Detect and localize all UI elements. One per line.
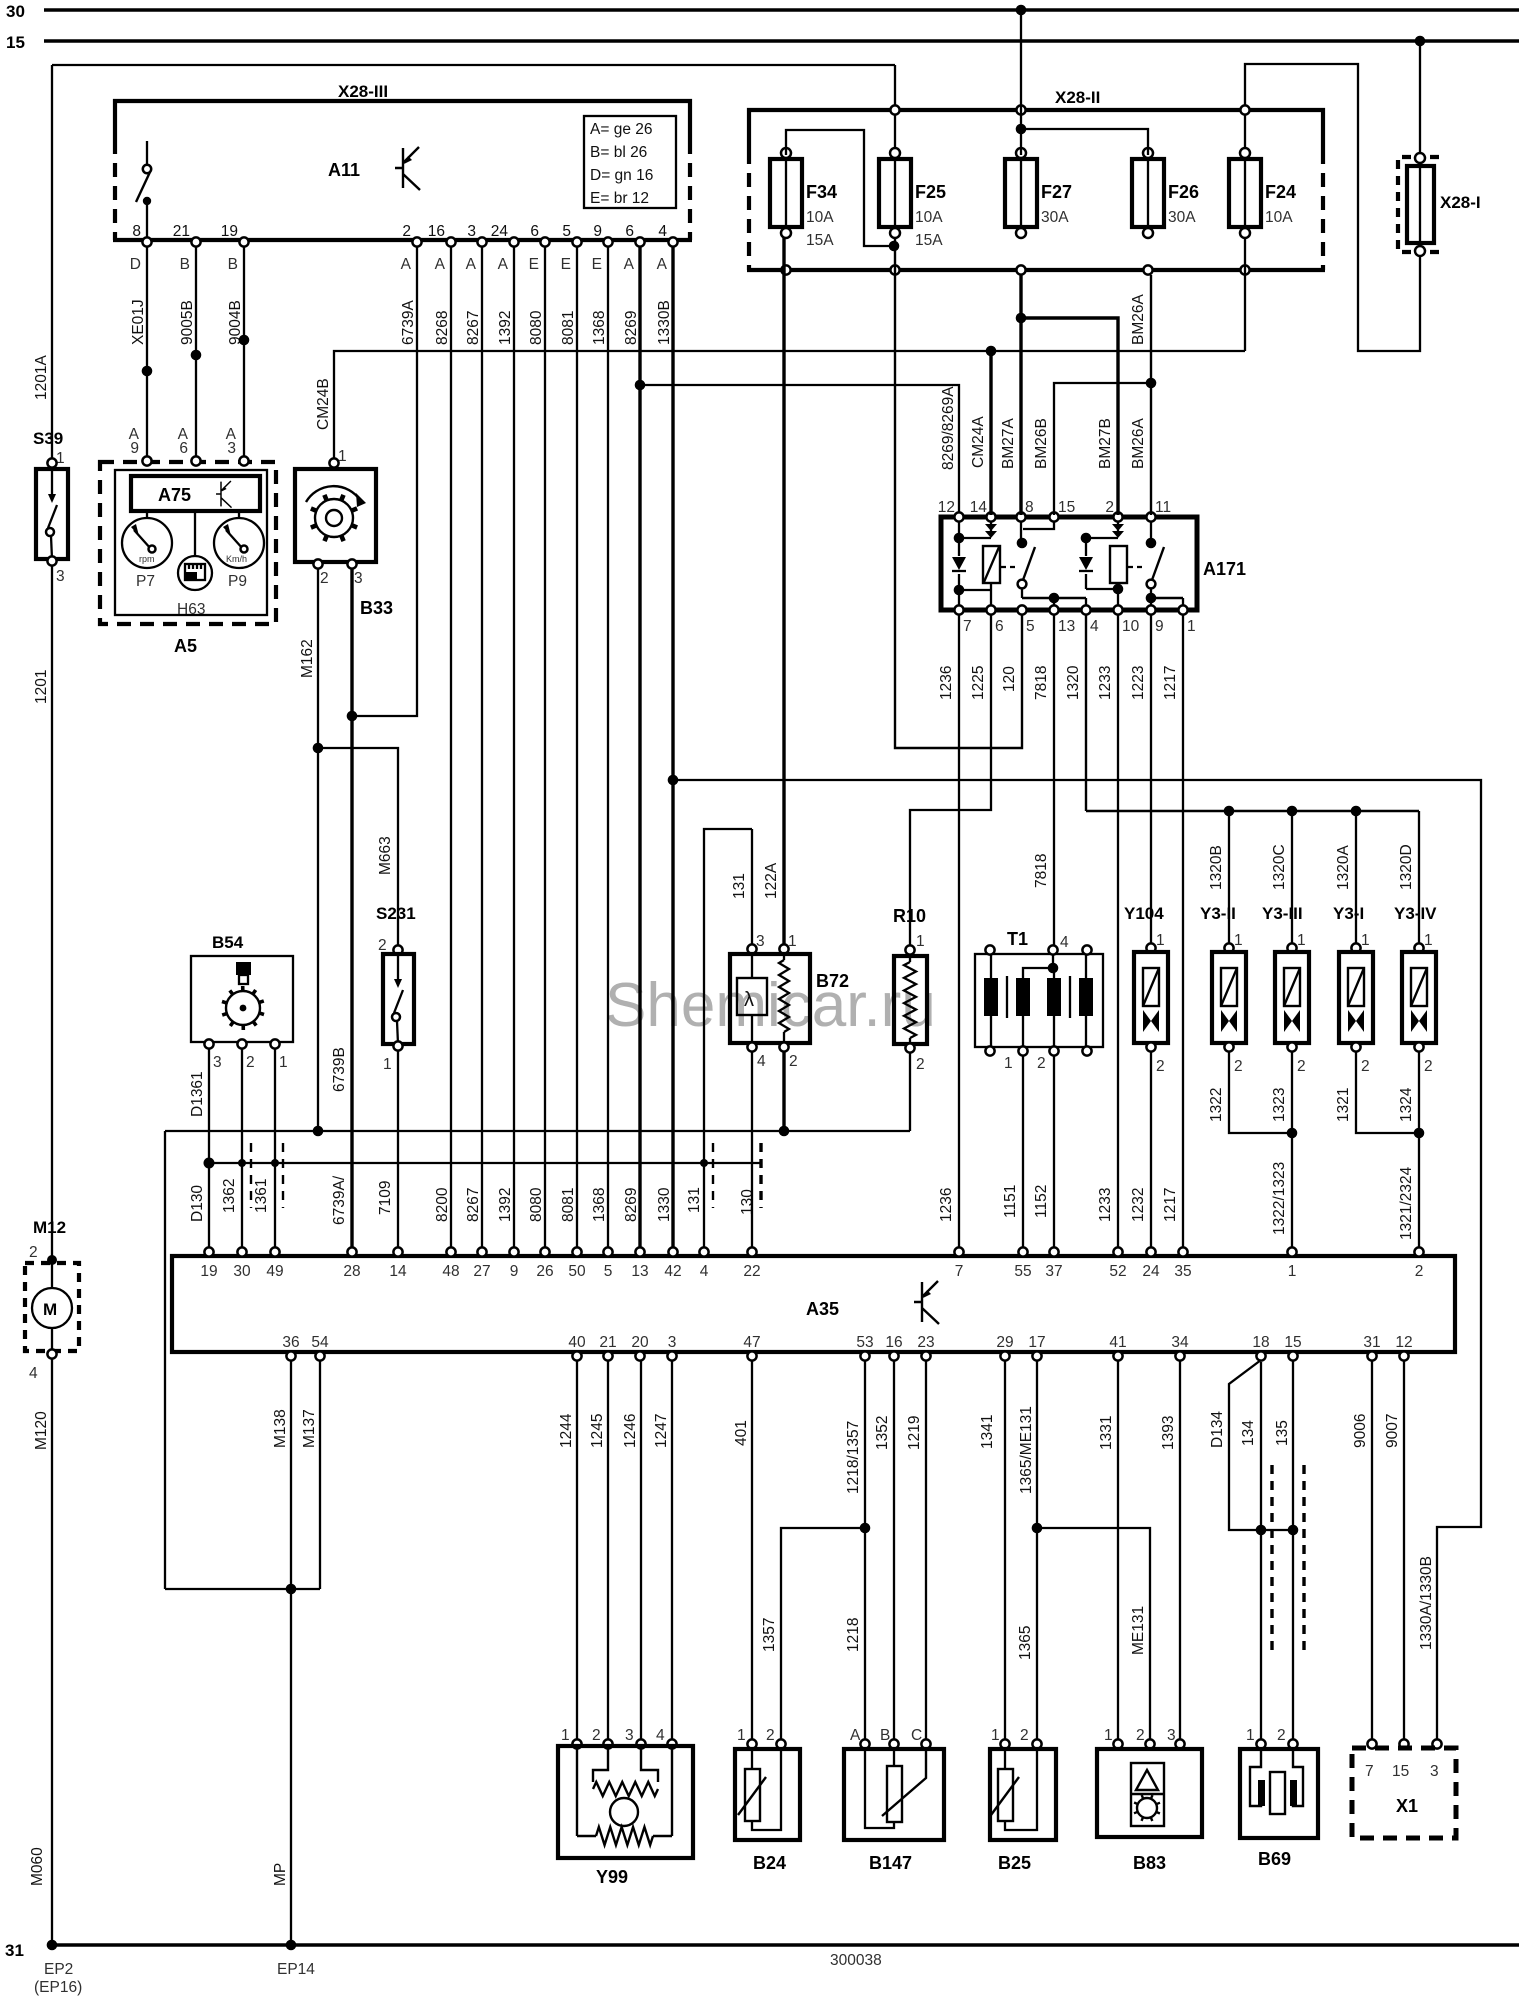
pin 4 of A171 bottom [1081,605,1090,614]
junction on 9004B wire [239,335,250,346]
junction BM26A/BM26B [1146,378,1157,389]
dashed wire 130 [759,1143,762,1208]
junction 8269/8269A [635,380,646,391]
svg-text:15: 15 [1284,1334,1301,1351]
wire to pin 13 [1053,598,1055,606]
junction 1320 bus at 1292 [1287,806,1298,817]
unit A75 box [131,476,260,511]
svg-text:1330A/1330B: 1330A/1330B [1418,1556,1435,1650]
connector X28-II box [747,110,1325,270]
svg-text:1320A: 1320A [1335,845,1352,890]
svg-text:A= ge 26: A= ge 26 [590,121,652,138]
wire M120/M060 to EP2 [51,1358,53,1943]
svg-text:7109: 7109 [377,1181,394,1215]
wire 134 to B69 pin 1 [1260,1362,1262,1742]
junction on 1361 [271,1159,279,1167]
svg-text:8268: 8268 [434,311,451,345]
wire T1 winding bottom at 1023 [1022,1016,1024,1047]
svg-text:D130: D130 [189,1185,206,1222]
svg-text:F25: F25 [915,182,946,202]
svg-text:18: 18 [1252,1334,1269,1351]
svg-text:X28-I: X28-I [1440,193,1481,212]
svg-text:3: 3 [227,440,236,457]
svg-text:EP14: EP14 [277,1961,315,1978]
relay coil K2 [1110,546,1127,583]
pin 10 of A171 bottom [1113,605,1122,614]
junction 1322/1323 [1287,1128,1298,1139]
wire 1236 to A35 pin 7 [958,614,960,1252]
svg-text:3: 3 [467,223,476,240]
gauge P9 (km/h) [214,518,264,568]
svg-text:A171: A171 [1203,559,1246,579]
svg-text:134: 134 [1240,1420,1257,1446]
M12 pin 4 terminal [47,1349,56,1358]
svg-text:9: 9 [130,440,139,457]
svg-text:F26: F26 [1168,182,1199,202]
wire 131 loop to A35 pin 4 [704,829,752,1252]
junction D130 [204,1158,215,1169]
svg-text:3: 3 [1430,1763,1439,1780]
svg-text:2: 2 [378,937,387,954]
wire 1320D to Y3-IV [1418,811,1420,946]
svg-text:10: 10 [1122,618,1140,635]
A35 top pin 49 [270,1247,279,1256]
svg-text:4: 4 [1060,934,1069,951]
svg-text:2: 2 [766,1727,775,1744]
svg-text:12: 12 [938,499,955,516]
junction coil bottom left [954,585,965,596]
svg-text:C: C [911,1727,922,1744]
wire F26 top to F27 feed [1023,129,1148,155]
svg-text:BM26B: BM26B [1033,418,1050,469]
svg-text:9: 9 [510,1263,519,1280]
wire colour legend box [584,116,676,208]
svg-text:1233: 1233 [1097,1188,1114,1222]
diode left relay [958,538,960,590]
svg-text:7: 7 [963,618,972,635]
svg-text:52: 52 [1109,1263,1126,1280]
wire 8081 to A35 pin 50 [576,246,578,1252]
svg-text:1341: 1341 [979,1415,996,1449]
svg-text:15A: 15A [806,232,834,249]
wire contact2 to pin 1 [1151,597,1183,599]
wire 1233 to A35 pin 52 [1117,614,1119,1252]
svg-text:4: 4 [658,223,667,240]
svg-text:D134: D134 [1209,1411,1226,1448]
svg-text:D: D [130,256,141,273]
wire bus30 to F27 [1020,14,1022,155]
junction 1330B/1330A [668,775,679,786]
wire diode to coil bottom [959,589,991,591]
svg-text:2: 2 [789,1053,798,1070]
svg-text:7: 7 [1365,1763,1374,1780]
svg-text:4: 4 [29,1365,38,1382]
A35 top pin 19 [204,1247,213,1256]
wire to pin 4 [1085,598,1087,606]
svg-text:26: 26 [536,1263,553,1280]
wire 120 relay output to F25 [895,237,1022,748]
T1 winding bar at 1086 [1079,978,1093,1016]
wire 135 to B69 pin 2 [1292,1360,1294,1742]
dashed wire 131 [712,1143,714,1208]
connector X28-III box [113,101,692,240]
wire to pin 9 [1150,598,1152,606]
svg-text:16: 16 [428,223,445,240]
svg-text:1321: 1321 [1335,1088,1352,1122]
svg-text:31: 31 [5,1941,24,1960]
svg-text:7: 7 [955,1263,964,1280]
svg-text:P7: P7 [136,573,155,590]
svg-text:2: 2 [1234,1058,1243,1075]
junction on XE01J wire [142,366,153,377]
svg-text:8081: 8081 [560,1188,577,1222]
svg-text:BM27A: BM27A [1000,418,1017,469]
svg-text:10A: 10A [1265,209,1293,226]
wire rail down left of A35 [164,1131,166,1589]
junction M162 on rail [313,1126,324,1137]
svg-text:55: 55 [1014,1263,1031,1280]
pin 3 of B54 [204,1039,213,1048]
wire T1 winding bottom at 991 [990,1016,992,1047]
wire pin 11 into box [1150,521,1152,543]
svg-text:1152: 1152 [1033,1185,1050,1218]
svg-text:1244: 1244 [558,1413,575,1448]
svg-text:2: 2 [1415,1263,1424,1280]
wire 1247 to Y99 [671,1360,673,1742]
wire XE01J to A5 pin 9 [146,246,148,458]
svg-text:2: 2 [1277,1727,1286,1744]
svg-text:B: B [228,256,238,273]
dashed variant wires near pins 30/49 [250,1143,252,1208]
svg-text:1392: 1392 [497,1188,514,1222]
svg-text:1323: 1323 [1271,1088,1288,1122]
wire bus15 to X28-I [1419,41,1421,158]
junction EP2 [47,1940,58,1951]
T1 winding bar at 1054 [1047,978,1061,1016]
wire 1330A/1330B to X1 pin 3 [673,780,1481,1742]
svg-text:S39: S39 [33,429,63,448]
svg-text:1: 1 [279,1054,288,1071]
svg-text:X28-II: X28-II [1055,88,1100,107]
svg-text:17: 17 [1028,1334,1045,1351]
svg-text:F34: F34 [806,182,837,202]
wire ME131 to B83 pin 2 [1037,1528,1150,1742]
svg-text:131: 131 [686,1187,703,1213]
svg-text:3: 3 [1167,1727,1176,1744]
wire 1219 to B147 pin C [925,1360,927,1742]
svg-text:1322/1323: 1322/1323 [1271,1162,1288,1235]
svg-text:1247: 1247 [653,1414,670,1448]
svg-text:A11: A11 [328,160,360,180]
fuse F24 [1229,148,1261,238]
svg-text:122A: 122A [763,862,780,899]
svg-text:9: 9 [1155,618,1164,635]
svg-text:1320D: 1320D [1398,844,1415,890]
svg-text:1218/1357: 1218/1357 [845,1421,862,1494]
svg-text:3: 3 [354,570,363,587]
svg-text:40: 40 [568,1334,586,1351]
svg-text:D= gn 16: D= gn 16 [590,167,653,184]
junction 131 on D130 rail [700,1159,708,1167]
wire CM24A to A171 pin 14 [989,351,992,515]
svg-text:6: 6 [530,223,539,240]
svg-text:27: 27 [473,1263,490,1280]
svg-text:1392: 1392 [497,311,514,345]
A35 top pin 14 [393,1247,402,1256]
junction F34/F25 [889,241,900,252]
svg-text:1223: 1223 [1130,666,1147,700]
wire R10 pin2 to ground rail [909,1052,911,1131]
svg-text:2: 2 [916,1056,925,1073]
junction MP [286,1584,297,1595]
svg-text:53: 53 [856,1334,873,1351]
svg-text:1362: 1362 [221,1179,238,1213]
svg-text:M060: M060 [29,1847,46,1886]
svg-text:9007: 9007 [1384,1414,1401,1448]
wire 1368 to A35 pin 5 [607,246,609,1252]
wire T1 pin4 into box [1052,954,1054,968]
T1 winding bar at 991 [984,978,998,1016]
svg-text:14: 14 [389,1263,407,1280]
svg-text:16: 16 [885,1334,902,1351]
svg-text:1322: 1322 [1208,1088,1225,1122]
A35 top pin 13 [635,1247,644,1256]
wire B72 pin2 to ground rail [782,1051,785,1131]
svg-text:1368: 1368 [591,311,608,345]
svg-text:CM24B: CM24B [315,378,332,430]
svg-text:1232: 1232 [1130,1188,1147,1222]
svg-text:F24: F24 [1265,182,1296,202]
junction on bus 15 (X28-I feed) [1415,36,1426,47]
svg-text:41: 41 [1109,1334,1126,1351]
svg-text:7818: 7818 [1033,666,1050,700]
svg-text:1225: 1225 [970,666,987,700]
wire 1323 / 1322-1323 to A35 pin 1 [1291,1051,1293,1252]
svg-text:10A: 10A [915,209,943,226]
svg-text:BM27B: BM27B [1097,418,1114,469]
M12 pin 2 terminal [47,1255,57,1265]
svg-text:15: 15 [1058,499,1075,516]
svg-text:2: 2 [1020,1727,1029,1744]
svg-text:3: 3 [213,1054,222,1071]
svg-text:1368: 1368 [591,1188,608,1222]
svg-text:24: 24 [1142,1263,1160,1280]
svg-text:2: 2 [320,570,329,587]
wire bus 30 [44,8,1519,11]
wire 1357 to B24 pin 2 [781,1528,865,1742]
pin 6 of A171 bottom [986,605,995,614]
X28-II top edge pin at x=895 [890,105,899,114]
junction EP14 [286,1940,297,1951]
svg-text:A5: A5 [174,636,197,656]
svg-text:8269: 8269 [623,1188,640,1222]
svg-text:B: B [180,256,190,273]
svg-text:B69: B69 [1258,1849,1291,1869]
svg-text:48: 48 [442,1263,459,1280]
wire 1246 to Y99 [640,1360,642,1742]
wire BM27B to A171 pin 2 [1021,318,1118,515]
svg-text:1352: 1352 [874,1416,891,1450]
svg-text:1: 1 [561,1727,570,1744]
svg-text:H63: H63 [177,601,205,618]
T1 pin 4 [1048,945,1057,954]
svg-text:36: 36 [282,1334,299,1351]
pin 9 of A171 bottom [1146,605,1155,614]
svg-text:30: 30 [233,1263,251,1280]
T1 top left terminal [985,945,994,954]
svg-text:1324: 1324 [1398,1087,1415,1122]
junction 6739A/6739B [347,711,358,722]
A35 top pin 2 [1414,1247,1423,1256]
svg-text:B83: B83 [1133,1853,1166,1873]
svg-text:15: 15 [1392,1763,1409,1780]
wire coil to pin 6 [990,583,992,606]
valve Y104 [1134,943,1168,1051]
fuse F27 [1005,148,1037,238]
svg-text:8269/8269A: 8269/8269A [940,386,957,470]
fuse F34 [770,148,802,238]
svg-text:31: 31 [1363,1334,1380,1351]
svg-text:F27: F27 [1041,182,1072,202]
svg-text:D1361: D1361 [189,1071,206,1117]
svg-text:4: 4 [656,1727,665,1744]
svg-text:A: A [498,256,509,273]
svg-text:5: 5 [1026,618,1035,635]
wire 6739B to A35 pin 28 [350,568,353,1252]
svg-text:6: 6 [625,223,634,240]
valve Y3-I [1339,943,1373,1051]
svg-text:1: 1 [737,1727,746,1744]
wire 1324 / joint to A35 pin 2 [1418,1051,1420,1252]
wire 131 to B72 pin 3 [751,829,753,947]
wire 1393 to B83 pin 3 [1179,1360,1181,1742]
svg-text:1217: 1217 [1162,666,1179,700]
wire 8268 to A35 pin 48 [450,246,452,1252]
A35 top pin 5 [603,1247,612,1256]
svg-text:X28-III: X28-III [338,82,388,101]
svg-text:1151: 1151 [1002,1185,1019,1218]
wire 7109 to A35 pin 14 [397,1050,399,1252]
svg-text:15A: 15A [915,232,943,249]
junction BM27A/BM27B [1016,313,1027,324]
svg-text:1: 1 [383,1056,392,1073]
svg-text:47: 47 [743,1334,760,1351]
svg-text:1320: 1320 [1065,665,1082,700]
svg-text:1: 1 [1361,932,1370,949]
wire 9006 to X1 pin 7 [1371,1360,1373,1742]
svg-text:34: 34 [1171,1334,1189,1351]
svg-text:13: 13 [631,1263,648,1280]
wire coil2 to pin 10 [1117,583,1119,606]
svg-text:B25: B25 [998,1853,1031,1873]
svg-text:14: 14 [970,499,988,516]
svg-text:8081: 8081 [560,311,577,345]
pin 2 of B54 [237,1039,246,1048]
svg-text:3: 3 [625,1727,634,1744]
X28-II top edge pin at x=1245 [1240,105,1249,114]
wire A75 to P7 [146,511,148,518]
svg-text:1: 1 [1187,618,1196,635]
svg-text:E= br 12: E= br 12 [590,190,649,207]
wire X28-I output to F24 [1245,64,1420,351]
junction 135/D134 [1288,1525,1299,1536]
svg-text:E: E [529,256,539,273]
svg-text:1218: 1218 [845,1618,862,1652]
wire contact to bus [1021,588,1023,598]
wire 1223 to Y104 [1150,614,1152,946]
svg-text:19: 19 [221,223,238,240]
svg-text:1236: 1236 [938,666,955,700]
svg-text:A: A [435,256,446,273]
svg-text:8267: 8267 [465,311,482,345]
svg-text:1365: 1365 [1017,1626,1034,1660]
svg-text:2: 2 [402,223,411,240]
wire 7818 to T1 pin 4 [1053,614,1055,948]
wire M663 to S231 [318,748,398,950]
wire 1201 S39 to M12 [51,565,53,1256]
wire M137 [319,1360,321,1589]
svg-text:B33: B33 [360,598,393,618]
wire sensor ground rail [165,1130,910,1132]
wire F24 bottom [1244,237,1246,351]
wire 1218/1357 to B147 pin A [864,1360,866,1742]
junction pin 9 [1146,593,1157,604]
A35 top pin 27 [477,1247,486,1256]
pin 1 of A171 bottom [1178,605,1187,614]
valve Y3-III [1275,943,1309,1051]
X28-II bottom edge pin at x=1148 [1143,265,1152,274]
wire 8269/8269A to A171 pin 12 [640,385,959,515]
contact pivot right [1146,538,1157,549]
svg-text:5: 5 [604,1263,613,1280]
svg-text:8080: 8080 [528,1187,545,1222]
wire 9004B to A5 pin 3 [243,246,245,458]
wire A75 to H63 [194,511,196,556]
svg-text:1357: 1357 [761,1618,778,1652]
svg-text:4: 4 [1090,618,1099,635]
transistor symbol in A11 [395,147,420,190]
A35 top pin 35 [1178,1247,1187,1256]
wire to pin 7 [958,590,960,606]
svg-text:50: 50 [568,1263,586,1280]
wire bus 15 [44,39,1519,42]
X28-II bottom edge pin at x=1021 [1016,265,1025,274]
wire 122A from F34 to B72 pin 1 [782,237,785,947]
wire BM26B to A171 pin 15 [1054,383,1151,515]
svg-text:1: 1 [1004,1055,1013,1072]
wire 1362 to A35 pin 30 [241,1048,243,1252]
junction diode top right [1081,533,1092,544]
wire 1201A down to S39 [51,65,53,461]
svg-text:6: 6 [179,440,188,457]
svg-text:30: 30 [6,2,25,21]
wire B72 pin4 to A35 pin 22 [751,1051,753,1252]
wire D130 rail [209,1162,761,1164]
svg-text:1320B: 1320B [1208,845,1225,890]
wire 1151 to A35 pin 55 [1022,1055,1024,1252]
svg-text:B72: B72 [816,971,849,991]
wire BM27A F27 to A171 pin 8 [1019,275,1022,515]
svg-text:A: A [401,256,412,273]
wire 8080 to A35 pin 26 [544,246,546,1252]
svg-text:1: 1 [1424,932,1433,949]
svg-text:1233: 1233 [1097,666,1114,700]
wire 1331 to B83 pin 1 [1117,1360,1119,1742]
wire 1232 Y104 to A35 pin 24 [1150,1051,1152,1252]
junction M162/M663 [313,743,324,754]
wire 1352 to B147 pin B [893,1360,895,1742]
junction T1 pin4 [1048,963,1059,974]
